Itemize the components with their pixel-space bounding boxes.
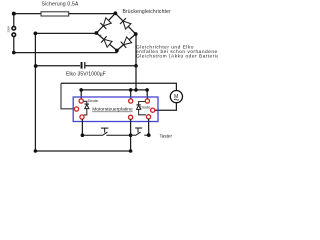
node switch right bbox=[147, 133, 151, 137]
wire AC2 bottom of bridge bbox=[14, 51, 117, 53]
node rail corner bbox=[34, 149, 38, 153]
svg-text:Diode: Diode bbox=[88, 98, 99, 103]
terminal left-middle bbox=[74, 107, 78, 111]
node bridge left bbox=[95, 31, 99, 35]
svg-text:Diode: Diode bbox=[140, 105, 151, 110]
wire diamond edge bottom-left bbox=[96, 33, 117, 51]
svg-text:Sicherung 0,5A: Sicherung 0,5A bbox=[42, 2, 79, 8]
diode D6 inside right bbox=[139, 102, 146, 115]
wire minus distribution bbox=[81, 89, 147, 91]
wire diamond edge top-right bbox=[115, 13, 135, 34]
node switch mid bbox=[129, 133, 133, 137]
wire capacitor right bbox=[85, 65, 136, 67]
switch S1 left Taster bbox=[82, 128, 130, 135]
node bridge right bbox=[134, 32, 138, 36]
wire left bus upper segment bbox=[13, 14, 15, 27]
node AC2 left corner bbox=[12, 51, 16, 55]
wire motor bottom to right-middle terminal bbox=[155, 103, 177, 111]
capacitor C1 Elko plates bbox=[81, 62, 85, 69]
wire diamond edge bottom-right bbox=[117, 34, 136, 51]
node minus dist mid bbox=[129, 88, 133, 92]
fuse F1 Sicherung bbox=[41, 12, 69, 16]
connector plug upper circle bbox=[12, 26, 16, 30]
wire plus rail from bridge left corner bbox=[35, 33, 130, 151]
terminal bottom-left bbox=[80, 115, 84, 119]
node bridge top bbox=[114, 11, 118, 15]
svg-text:Elko 35V/1000µF: Elko 35V/1000µF bbox=[66, 72, 106, 78]
wire drop to terminal top-left bbox=[80, 90, 82, 99]
wire bottom-right terminal down to switch node bbox=[148, 119, 150, 135]
svg-text:Gleichstrom (Akku oder Batteri: Gleichstrom (Akku oder Batterie) bbox=[136, 54, 218, 60]
node plus rail corner bbox=[34, 32, 38, 36]
motor M1 bbox=[170, 91, 182, 103]
node minus rail join bbox=[134, 88, 138, 92]
connector plug lower circle bbox=[12, 33, 16, 37]
diode D5 inside left bbox=[83, 101, 87, 115]
node bridge bottom bbox=[115, 49, 119, 53]
diode D4 bottom-right bbox=[121, 37, 132, 48]
diode D2 top-right bbox=[120, 18, 131, 29]
svg-text:-: - bbox=[129, 30, 131, 35]
wire bottom-left terminal down to switch node bbox=[81, 119, 83, 135]
module Motorsteuerplatine box bbox=[73, 97, 158, 122]
bridge rectifier diamond wires bbox=[96, 13, 135, 50]
node minus dist right bbox=[145, 88, 149, 92]
wire drop to terminal top-right bbox=[146, 90, 148, 99]
terminal top-right bbox=[145, 99, 149, 103]
node capacitor left junction bbox=[34, 64, 38, 68]
terminal bottom-mid bbox=[129, 115, 133, 119]
wire minus rail from bridge right corner bbox=[135, 34, 137, 90]
terminal right-middle bbox=[151, 108, 155, 112]
wire capacitor left bbox=[35, 65, 80, 67]
svg-text:230V: 230V bbox=[6, 26, 10, 33]
svg-text:Taster: Taster bbox=[160, 133, 173, 138]
wire fuse to bridge top bbox=[69, 13, 116, 15]
wire drop to terminal top-mid bbox=[130, 90, 132, 99]
wire top AC from left corner to fuse bbox=[14, 13, 41, 15]
node rail end bbox=[129, 149, 133, 153]
svg-text:+: + bbox=[100, 33, 103, 38]
node capacitor right junction bbox=[134, 64, 138, 68]
svg-text:Brückengleichrichter: Brückengleichrichter bbox=[123, 9, 171, 15]
terminal top-left bbox=[79, 99, 83, 103]
diode D1 top-left bbox=[100, 18, 111, 29]
wire to left-middle terminal bbox=[61, 83, 75, 109]
node top-left corner bbox=[12, 12, 16, 16]
node switch left bbox=[81, 133, 85, 137]
svg-text:Motorsteuerplatine: Motorsteuerplatine bbox=[92, 107, 133, 113]
terminal bottom-right bbox=[146, 115, 150, 119]
terminal top-mid bbox=[129, 99, 133, 103]
wire diamond edge top-left bbox=[96, 13, 115, 33]
wire left bus lower segment bbox=[13, 36, 15, 52]
node minus dist left bbox=[79, 88, 83, 92]
wire bottom-mid terminal down to rail bbox=[130, 119, 132, 151]
diode D3 bottom-left bbox=[101, 36, 112, 47]
switch S2 right Taster bbox=[131, 128, 149, 136]
wire motor upper ladder bbox=[61, 83, 176, 90]
